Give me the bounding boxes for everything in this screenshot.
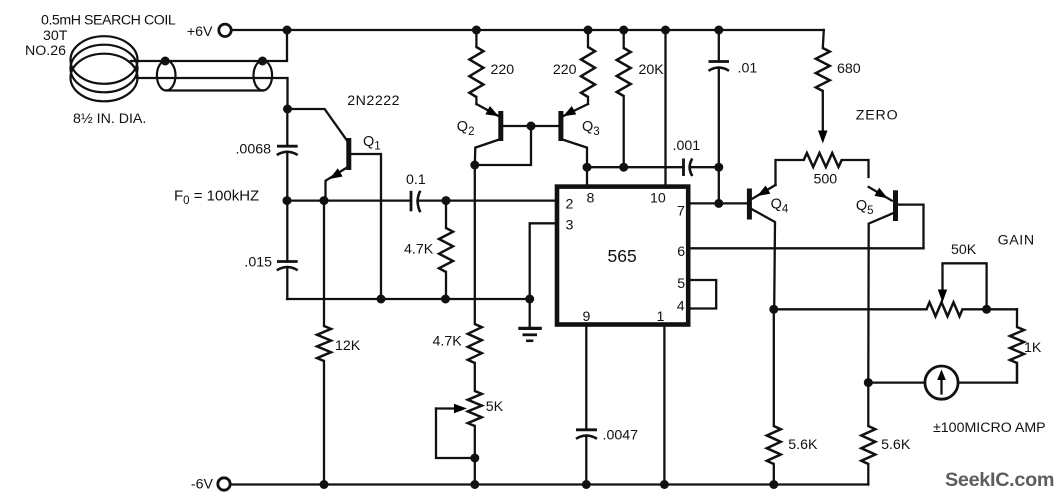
junction pin7 Q4 base	[714, 199, 723, 208]
junction ground node	[525, 295, 534, 304]
junction top rail at x287	[283, 26, 292, 35]
junction rail .01	[714, 26, 723, 35]
junction Q4 collector output	[769, 305, 778, 314]
junction Q2 collector node	[470, 161, 479, 170]
resistor 5.6K right	[861, 383, 875, 485]
potentiometer 50K	[927, 263, 1018, 316]
svg-text:ZERO: ZERO	[856, 108, 899, 124]
junction 0.1 output	[442, 196, 451, 205]
svg-text:5.6K: 5.6K	[788, 437, 818, 453]
wire meter right	[958, 363, 1017, 383]
svg-text:1: 1	[657, 309, 665, 325]
svg-text:565: 565	[608, 246, 637, 266]
wire F0 node to pin2	[287, 199, 411, 201]
potentiometer 5K	[436, 391, 482, 485]
junction Q1 base on bus	[377, 295, 386, 304]
junction F0 node	[283, 196, 292, 205]
junction shield right	[258, 57, 267, 66]
svg-text:.01: .01	[738, 61, 758, 77]
svg-text:20K: 20K	[639, 62, 665, 78]
wire pin1 to rail	[663, 325, 665, 485]
potentiometer 500	[776, 153, 869, 185]
svg-text:500: 500	[814, 172, 838, 188]
svg-text:5K: 5K	[486, 399, 504, 415]
svg-text:30T: 30T	[43, 28, 68, 44]
+6V terminal	[187, 24, 231, 40]
cable shield ring right	[253, 61, 272, 91]
svg-text:-6V: -6V	[191, 477, 214, 493]
wire pin8 node line	[587, 166, 684, 168]
svg-text:5: 5	[677, 276, 685, 292]
capacitor C1 .0068	[277, 109, 298, 201]
junction Q5 collector meter node	[864, 378, 873, 387]
svg-text:4.7K: 4.7K	[404, 241, 434, 257]
capacitor C5 .01	[709, 30, 730, 167]
junction 20K bottom	[619, 163, 628, 172]
svg-text:4.7K: 4.7K	[433, 334, 463, 350]
svg-text:2N2222: 2N2222	[347, 93, 400, 109]
junction rail 5K	[470, 480, 479, 489]
wire shield bottom line	[166, 89, 263, 91]
svg-text:SeekIC.com: SeekIC.com	[945, 469, 1054, 491]
svg-text:2: 2	[566, 197, 574, 213]
svg-text:.001: .001	[673, 138, 701, 154]
resistor 5.6K left	[767, 309, 781, 484]
pin 3 stub	[530, 223, 557, 299]
resistor 12K	[317, 201, 331, 485]
svg-text:10: 10	[650, 191, 666, 207]
pin 7 stub	[688, 202, 747, 204]
svg-text:.0047: .0047	[603, 428, 639, 444]
wire meter left	[868, 381, 925, 383]
svg-text:0.5mH SEARCH COIL: 0.5mH SEARCH COIL	[41, 13, 176, 29]
svg-text:220: 220	[553, 62, 577, 78]
resistor 220 Q3	[581, 30, 595, 104]
cable shield ring left	[157, 61, 176, 91]
svg-text:5.6K: 5.6K	[881, 437, 911, 453]
resistor 20K	[617, 30, 631, 167]
resistor 4.7K emitter chain	[468, 165, 482, 391]
capacitor C3 0.1	[411, 191, 446, 212]
capacitor C6 .0047	[576, 325, 597, 485]
resistor 1K	[1010, 309, 1024, 382]
junction Q1 emitter node	[320, 196, 329, 205]
junction pin8	[583, 163, 592, 172]
capacitor C4 .001	[684, 159, 719, 177]
capacitor C2 .015	[277, 201, 298, 299]
resistor 4.7K input bias	[439, 201, 453, 299]
svg-text:4: 4	[677, 299, 685, 315]
svg-text:1K: 1K	[1024, 340, 1042, 356]
junction rail 20K	[619, 26, 628, 35]
svg-text:+6V: +6V	[187, 24, 213, 40]
svg-text:7: 7	[677, 204, 685, 220]
wire .01 node to pin7 node	[718, 167, 720, 203]
svg-text:NO.26: NO.26	[25, 43, 66, 59]
svg-text:12K: 12K	[335, 338, 361, 354]
wire +6V top rail	[232, 29, 824, 31]
junction Q1 collector node	[283, 105, 292, 114]
transistor Q1 2N2222	[288, 109, 382, 299]
meter M1	[925, 366, 958, 399]
svg-text:.0068: .0068	[235, 142, 271, 158]
svg-text:±100MICRO AMP: ±100MICRO AMP	[933, 420, 1046, 436]
wire output to 50K	[774, 308, 927, 310]
pin 5-4 jumper	[688, 280, 716, 309]
transistor Q3	[561, 104, 588, 167]
wire base-collector tie Q2	[475, 126, 531, 165]
svg-text:3: 3	[566, 218, 574, 234]
inductor L1 search coil	[71, 36, 138, 101]
junction rail 12K	[320, 480, 329, 489]
svg-text:50K: 50K	[951, 242, 977, 258]
transistor Q4	[749, 185, 775, 309]
op-amp U1 565 PLL box	[557, 187, 688, 325]
wire inner conductor	[137, 78, 288, 109]
resistor 220 Q2	[469, 30, 483, 104]
svg-text:GAIN: GAIN	[998, 232, 1035, 248]
svg-text:8½ IN. DIA.: 8½ IN. DIA.	[73, 111, 146, 127]
junction .01 bottom	[714, 163, 723, 172]
ground symbol	[518, 299, 542, 341]
junction rail 5.6K left	[769, 480, 778, 489]
transistor Q2	[475, 104, 558, 165]
junction 50K wiper	[982, 305, 991, 314]
wire 0.1 to pin 2	[446, 199, 557, 201]
junction Q2 base tie	[527, 122, 536, 131]
svg-text:.015: .015	[244, 255, 272, 271]
pin 8 stub	[586, 167, 588, 186]
pin 10 stub	[661, 26, 670, 35]
svg-text:9: 9	[583, 309, 591, 325]
svg-text:680: 680	[837, 61, 861, 77]
resistor 680	[816, 30, 830, 144]
junction 5K wiper tie	[470, 454, 479, 463]
junction rail pin9	[582, 480, 591, 489]
junction rail pin1	[660, 480, 669, 489]
pin 6 stub	[688, 247, 924, 249]
junction rail 220 Q2	[472, 26, 481, 35]
svg-text:220: 220	[491, 62, 515, 78]
junction rail 220 Q3	[584, 26, 593, 35]
-6V terminal	[191, 477, 230, 493]
junction shield left	[161, 57, 170, 66]
svg-text:0.1: 0.1	[406, 172, 426, 188]
wire shield top line	[131, 30, 287, 61]
svg-text:6: 6	[677, 244, 685, 260]
junction 4.7K bottom on bus	[441, 295, 450, 304]
svg-text:8: 8	[587, 191, 595, 207]
transistor Q5	[868, 187, 923, 383]
wire -6V bottom rail	[231, 483, 869, 485]
wire ground bus	[287, 298, 530, 300]
